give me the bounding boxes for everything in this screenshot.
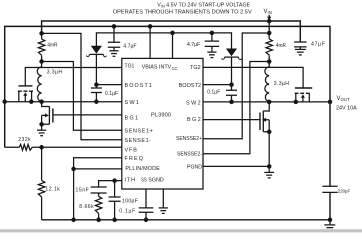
wire TG2 net (203, 67, 303, 88)
capacitor 220uF (322, 186, 337, 192)
ground for 4.7uF INTVCC cap (207, 52, 216, 58)
resistor 4mR (left sense) (38, 33, 44, 61)
resistor 4mR (right sense) (266, 33, 272, 62)
pin label FREQ (125, 156, 145, 162)
resistor 8.66k (95, 196, 101, 213)
svg-text:4.7µF: 4.7µF (187, 42, 200, 48)
svg-text:SW1: SW1 (125, 100, 141, 106)
schottky diode D2 (222, 49, 242, 60)
label 3.3uH right (274, 81, 290, 87)
wire PLLIN/MODE net (74, 168, 122, 170)
svg-text:3.3µH: 3.3µH (47, 69, 63, 75)
svg-text:VOUT: VOUT (337, 96, 350, 102)
transistor M2 bottom FET left (BG1) (42, 102, 53, 125)
svg-text:232k: 232k (18, 137, 31, 143)
pin label SW2 (186, 101, 202, 107)
wire INTVCC net (96, 33, 231, 49)
pin label VBIAS INTVCC (142, 65, 178, 71)
wire BG1 gate lead (53, 114, 122, 116)
capacitor 0.1uF (SS) (139, 208, 154, 212)
wire ITH net (99, 181, 122, 187)
wire SENSE2- net (203, 62, 269, 154)
label 3.3uH left (47, 69, 63, 75)
svg-text:VBIAS INTV: VBIAS INTV (142, 65, 172, 71)
label 100pF (122, 198, 138, 204)
pin label PLLIN/MODE (125, 166, 160, 172)
transistor M3 top FET right (TG2) (295, 88, 313, 102)
svg-text:15nF: 15nF (76, 188, 90, 194)
svg-text:47µF: 47µF (311, 42, 326, 48)
wire SENSE1- net (42, 33, 122, 139)
label 4.7uF left (123, 43, 136, 49)
label 15nF (76, 188, 90, 194)
pin label TG2 (190, 65, 201, 71)
ground for 47uF (295, 49, 306, 55)
pin label BG2 (187, 117, 202, 123)
wire BOOST1 net (96, 84, 121, 86)
capacitor 4.7uF (INTVCC) (205, 33, 220, 52)
label 4.7uF right (187, 42, 200, 48)
wire bootstrap node 1 vertical (95, 55, 97, 102)
wire SW2 net (203, 101, 330, 103)
pin label VFB (125, 147, 138, 153)
pin label PGND (187, 165, 202, 171)
svg-text:PLLIN/MODE: PLLIN/MODE (125, 166, 160, 172)
capacitor 15nF (91, 187, 107, 193)
pin label SENSE1- (125, 138, 152, 144)
label 0.1uF boost1 (105, 91, 118, 97)
wire BG2 source to PGND ground (268, 132, 270, 172)
svg-text:SENSSE2+: SENSSE2+ (176, 136, 202, 142)
wire VOUT rail lower segment (329, 192, 331, 219)
svg-text:OPERATES THROUGH TRANSIENTS DO: OPERATES THROUGH TRANSIENTS DOWN TO 2.5V (113, 10, 252, 16)
ground for BG1 source (37, 124, 46, 135)
svg-text:0.1µF: 0.1µF (207, 90, 220, 96)
svg-text:SENSE1-: SENSE1- (125, 138, 152, 144)
pin label BOOST2 (179, 83, 201, 89)
node VIN label (264, 9, 272, 15)
svg-text:12.1k: 12.1k (45, 187, 60, 193)
svg-text:PGND: PGND (187, 165, 202, 171)
pin label SW1 (125, 100, 141, 106)
svg-text:4.7µF: 4.7µF (123, 43, 136, 49)
pin label SGND (148, 178, 164, 184)
inductor L1 3.3uH (37, 62, 41, 102)
capacitor 100pF (109, 197, 121, 201)
ground for 4.7uF VBIAS cap (109, 51, 118, 57)
svg-text:BOOST2: BOOST2 (179, 83, 201, 89)
svg-text:VFB: VFB (125, 147, 138, 153)
pin label SENSSE2- (177, 152, 202, 158)
wire VIN rail (net VIN) (42, 21, 301, 42)
label 4mR right (276, 43, 286, 49)
pin label ITH (125, 178, 136, 184)
svg-text:24V 10A: 24V 10A (336, 105, 357, 111)
wire VOUT rail (net VOUT) (5, 26, 330, 186)
svg-text:SGND: SGND (148, 178, 164, 184)
svg-text:3.3µH: 3.3µH (274, 81, 290, 87)
pin label BOOST1 (125, 83, 153, 89)
wire 15nF to 8.66k (98, 193, 100, 220)
svg-text:0.1µF: 0.1µF (105, 91, 118, 97)
svg-text:FREQ: FREQ (125, 156, 145, 162)
wire SS pin drop (145, 189, 147, 220)
capacitor 4.7uF (VBIAS) (108, 26, 120, 50)
wire INTVCC pin (172, 33, 174, 59)
label 8.66k (79, 204, 94, 210)
label 0.1uF boost2 (207, 90, 220, 96)
svg-text:8.66k: 8.66k (79, 204, 94, 210)
svg-text:TG1: TG1 (125, 64, 135, 70)
svg-text:CC: CC (172, 66, 178, 71)
svg-text:ITH: ITH (125, 178, 136, 184)
svg-text:4mR: 4mR (47, 43, 57, 49)
svg-text:TG2: TG2 (190, 65, 201, 71)
label 12.1k (45, 187, 60, 193)
op-amp U1 PL3900 controller outline (122, 58, 203, 189)
wire PGND net (203, 165, 269, 167)
wire SW1 net (5, 101, 122, 103)
label 0.1uF SS (119, 209, 136, 215)
wire ITH 100pF branch (114, 181, 116, 220)
capacitor 47uF (VIN) (294, 42, 307, 49)
wire FREQ net (74, 158, 122, 169)
pin label SENSSE2+ (176, 136, 202, 142)
wire SENSE2+ net (203, 33, 269, 139)
wire BG2 gate lead (203, 119, 260, 121)
svg-text:100pF: 100pF (122, 198, 138, 204)
inductor L2 3.3uH (265, 62, 269, 102)
resistor 12.1k (38, 147, 44, 220)
wire BOOST2 net (203, 84, 232, 86)
svg-text:SENSSE2-: SENSSE2- (177, 152, 202, 158)
page edge band (0, 229, 362, 232)
wire VFB net (5, 146, 122, 148)
svg-text:BG2: BG2 (187, 117, 202, 123)
svg-text:SENSE1+: SENSE1+ (125, 128, 154, 134)
svg-text:4mR: 4mR (276, 43, 286, 49)
transistor M4 bottom FET right (BG2) (260, 102, 269, 132)
wire VBIAS pin to VOUT rail (149, 26, 151, 58)
capacitor 0.1uF boost 1 (91, 88, 102, 93)
wire SENSE1+ net (42, 62, 122, 131)
pin label SENSE1+ (125, 128, 154, 134)
wire SGND pin drop (162, 189, 164, 207)
wire TG1 net (25, 68, 122, 86)
ground bottom right (324, 220, 335, 231)
capacitor 0.1uF boost 2 (226, 90, 237, 95)
svg-text:BOOST1: BOOST1 (125, 83, 153, 89)
pin label TG1 (125, 64, 135, 70)
node VOUT label (336, 96, 357, 111)
svg-text:VIN: VIN (264, 9, 272, 15)
svg-text:VIN 4.5V TO 24V START-UP VOLTA: VIN 4.5V TO 24V START-UP VOLTAGE (157, 3, 250, 9)
label 4mR left (47, 43, 57, 49)
svg-text:BG1: BG1 (125, 115, 140, 121)
svg-text:0.1µF: 0.1µF (119, 209, 136, 215)
ground for SGND (159, 208, 168, 214)
label 232k (18, 137, 31, 143)
resistor 232k (19, 144, 32, 150)
label 220uF (338, 189, 350, 195)
transistor M1 top FET left (TG1) (18, 86, 33, 102)
wire bootstrap node 2 vertical (231, 58, 233, 102)
pin label BG1 (125, 115, 140, 121)
wire VIN input stub (267, 15, 271, 21)
label PL3900 (151, 113, 171, 119)
svg-text:SW2: SW2 (186, 101, 202, 107)
pin label SS (141, 178, 147, 184)
header line 2 transients spec (113, 10, 252, 16)
svg-text:SS: SS (141, 178, 147, 184)
svg-text:220µF: 220µF (338, 189, 350, 195)
ground for PGND (264, 172, 274, 178)
wire bottom ground rail (net GND) (42, 219, 330, 221)
svg-text:PL3900: PL3900 (151, 113, 171, 119)
wire FREQ/PLLIN ground drop (73, 169, 75, 220)
wire VIN column (268, 21, 270, 33)
schottky diode D1 (87, 46, 107, 57)
label 47uF (311, 42, 326, 48)
header line 1 VIN spec (157, 3, 250, 9)
